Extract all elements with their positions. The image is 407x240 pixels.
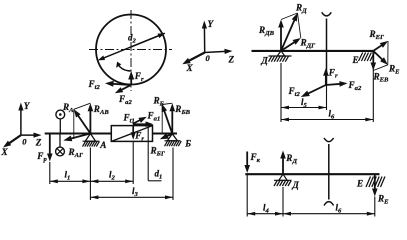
extension Fk down [246,174,248,216]
reaction RBv vertical [171,108,173,134]
support A hatching [83,140,100,142]
support D triangle [277,51,285,56]
parallelogram lines at E [387,41,389,65]
moment symbol circle-cross (into page) [56,147,65,156]
svg-text:Д: Д [261,56,269,66]
reaction RE diagonal [373,51,384,62]
support B hatching [165,140,181,142]
rotation direction arc [119,65,131,71]
parallelogram lines at B [162,103,172,104]
X axis [187,53,205,63]
support E hatching top right [359,53,375,62]
force Ft2 (left) [110,84,131,85]
gear symbol fork [326,19,328,51]
svg-text:X: X [1,147,9,157]
svg-text:А: А [99,140,106,150]
reaction RE2 down [374,174,376,192]
gear 2 circle d2 [96,15,166,85]
moment symbol circle-dot (out of page) [56,110,65,119]
reaction RA diagonal [77,113,91,133]
extension line mid down [326,85,328,110]
reaction RB diagonal [163,108,172,134]
reaction RDv vertical [280,24,282,51]
force Fk down at left end [246,152,248,169]
dimension l2 [90,180,133,182]
parallelogram lines at A [74,103,91,109]
Y axis [203,25,205,52]
beam axis bottom right [245,173,379,175]
gear 1 diagonal [111,126,152,142]
support D hatching [269,55,292,57]
svg-text:Д: Д [292,180,300,190]
svg-text:Б: Б [184,139,191,149]
reaction REg [373,44,384,51]
svg-text:X: X [186,63,194,73]
dimension l5 [281,107,327,109]
dimension l6 bottom [283,213,375,215]
force Ft1 oblique up-right [133,119,143,124]
force Fp (down) at left end [49,134,51,157]
diameter d2 arrow [131,35,161,47]
extension D2 down [282,187,284,217]
parallelogram lines at D [281,13,298,20]
Z axis left [21,134,37,136]
dimension l4 [247,213,283,215]
extension line Fr1 [132,141,134,184]
support B triangle [167,134,177,141]
force Fa2 (right) [326,84,343,85]
stem below beam [326,51,328,85]
support D2 hatching [274,179,292,181]
Y axis left [20,107,22,135]
dimension l6 top [281,119,373,121]
force Fr (up) [325,73,327,85]
svg-text:Е: Е [352,55,359,65]
reaction RDg oblique [281,41,297,51]
shaft axis right segment [153,132,178,134]
force Fr on gear 2 (up) [130,76,132,85]
beam axis top right [252,50,374,52]
support E2 hatching [366,177,385,188]
reaction RBg oblique [165,134,173,137]
stub to axis from circle-dot [59,119,61,134]
support D2 triangle [279,174,287,180]
extension line Fp [49,162,51,184]
Z axis [205,51,228,52]
gear 1 rectangle [111,126,152,142]
svg-text:Z: Z [35,138,42,148]
force Fr1 (down) inside gear [132,126,134,136]
force Fa2 (down-left) [119,85,131,91]
extension line A [89,148,91,201]
reaction RAg oblique [68,134,90,140]
horizontal centerline [89,49,172,51]
reaction REv down [372,51,374,66]
force Fa1 axial right [133,123,149,125]
dimension l3 [90,196,173,198]
X axis left [7,135,21,145]
reaction RAv vertical [89,108,91,134]
shaft axis left segment [45,132,112,134]
force Ft2 (down-left) [305,85,325,95]
dimension l1 [50,180,91,182]
extension line B [172,148,174,201]
d1 leader line [147,125,149,181]
vertical centerline [130,10,132,91]
reaction RD2 up [282,155,284,174]
extension line E down [372,62,374,122]
reaction RD diagonal [281,17,296,51]
gear fork symbol 2 [328,144,330,200]
svg-text:0: 0 [22,137,27,147]
support A triangle [85,134,95,142]
stub to axis from circle-cross [59,134,61,148]
extension E2 down [374,197,376,217]
extension line D down [280,63,282,122]
svg-text:Z: Z [228,55,235,65]
svg-text:Е: Е [356,179,363,189]
